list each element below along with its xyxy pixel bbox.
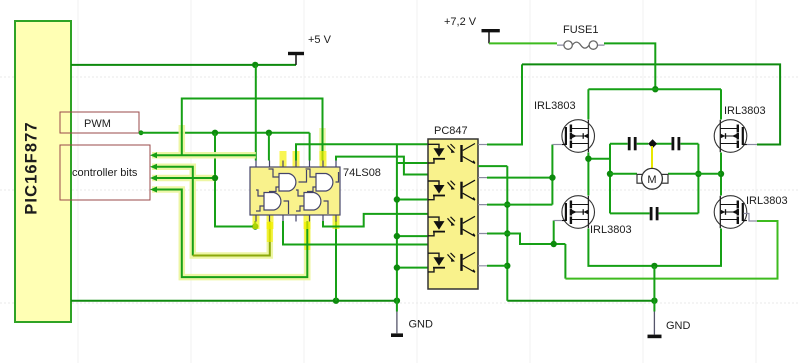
wire +5V rail from PIC [71, 64, 296, 66]
wire bottom cap row [610, 212, 698, 214]
AND gate 3 [256, 190, 289, 214]
motor M1 [637, 168, 668, 189]
wire cathode bus [396, 144, 398, 300]
wire opto ch1 collector to top rail [478, 144, 487, 146]
svg-text:74LS08: 74LS08 [343, 167, 381, 179]
wire source tie Q3-Q4 (inner U) [588, 229, 721, 266]
junction [585, 156, 591, 162]
gate lead Q4 [744, 214, 758, 222]
junction at IC pin bottom [252, 223, 258, 229]
svg-text:IRL3803: IRL3803 [590, 224, 632, 236]
junction node on +5V rail [252, 62, 258, 68]
pin highlights [280, 151, 287, 167]
wire Q1 gate column [507, 145, 552, 205]
highlight glow on controller bit nets [152, 125, 323, 277]
junction [651, 298, 657, 304]
power +7,2V [444, 16, 500, 43]
junction [394, 196, 400, 202]
AND gate 2 [306, 169, 339, 192]
gate lead Q3 [554, 220, 562, 222]
wire gate tie Q3-Q4 [565, 221, 777, 279]
wire cap column right [697, 144, 699, 214]
wire IC pin bottom to opto ch4 anode [283, 221, 428, 245]
wire opto ch1 emitter bus top [478, 165, 507, 167]
wire 7.2V to fuse [489, 42, 557, 44]
pins bottom [256, 215, 336, 222]
wire IC gate1 out to opto ch1 anode [296, 144, 428, 160]
junction [266, 130, 272, 136]
svg-text:PIC16F877: PIC16F877 [23, 121, 41, 214]
svg-text:IRL3803: IRL3803 [534, 100, 576, 112]
microcontroller PIC16F877 [15, 21, 71, 322]
wire opto stubs right [478, 205, 487, 266]
channel 3 [428, 216, 476, 236]
gate lead Q2 [747, 144, 757, 146]
wire bit1 to IC [157, 154, 256, 156]
MOSFET Q4 IRL3803 [714, 195, 787, 228]
controller bits box [60, 145, 150, 200]
wire to ground rail [653, 266, 655, 301]
svg-text:GND: GND [666, 320, 691, 332]
channel 4 [428, 252, 476, 272]
svg-text:+5 V: +5 V [308, 34, 332, 46]
MOSFET Q2 IRL3803 [714, 105, 765, 152]
arrow bit3 [150, 175, 157, 181]
AND gate 1 [269, 169, 307, 192]
wire IC pin bottom to opto ch3 anode [323, 214, 428, 227]
wire stub pin7 bottom [254, 221, 256, 227]
wire Q1 source jog [588, 153, 610, 196]
junction [504, 230, 510, 236]
capacitor C3 [651, 207, 657, 220]
svg-text:PC847: PC847 [434, 125, 468, 137]
wire top rail to Q2 gate [522, 64, 780, 144]
channel 1 [428, 144, 476, 164]
fuse FUSE1 [557, 24, 605, 49]
wire bit2 to IC (inner U) [157, 167, 193, 256]
wire PWM branch to IC top pin [268, 133, 270, 161]
wire PWM output [139, 130, 144, 135]
svg-text:IRL3803: IRL3803 [746, 195, 788, 207]
junction [394, 264, 400, 270]
junction [333, 298, 339, 304]
wire IC pin7 top to opto ch2 anode [336, 157, 428, 175]
junction [394, 298, 400, 304]
junction [551, 241, 557, 247]
wire motor row [610, 173, 721, 175]
wire bit4 to IC (outer U) [157, 190, 307, 278]
AND gate 4 [296, 190, 328, 214]
capacitor C1 [629, 137, 635, 150]
svg-text:M: M [647, 174, 656, 186]
junction [652, 86, 658, 92]
junction [695, 171, 701, 177]
junction [394, 233, 400, 239]
channel 2 [428, 180, 476, 200]
wire cap column left [609, 144, 611, 214]
wire opto ch2 collector to Q1 gate [478, 177, 487, 179]
junction [607, 171, 613, 177]
wire Q3 gate net [507, 221, 565, 279]
svg-text:FUSE1: FUSE1 [563, 24, 598, 36]
junction [504, 263, 510, 269]
wire Q2 source to Q4 drain [720, 153, 722, 196]
wire IC pin8 bottom to ground rail [335, 221, 337, 301]
svg-text:PWM: PWM [84, 118, 111, 130]
wire fuse to bridge [604, 43, 655, 89]
junction [651, 263, 657, 269]
gate lead Q1 [552, 144, 561, 146]
MOSFET Q3 IRL3803 [562, 196, 632, 236]
ground symbol right [648, 301, 691, 337]
svg-text:controller bits: controller bits [72, 167, 138, 179]
svg-text:+7,2 V: +7,2 V [444, 16, 477, 28]
wire highlighted motor feed [651, 146, 653, 169]
arrow bit2 [150, 164, 157, 170]
MOSFET Q1 IRL3803 [534, 100, 595, 152]
wire PWM branch to IC top pin [309, 133, 311, 161]
junction [212, 130, 218, 136]
wire bridge over boxes [182, 99, 323, 161]
junction [212, 175, 218, 181]
arrow bit4 [150, 187, 157, 193]
ground symbol left [391, 301, 433, 336]
capacitor C2 [673, 137, 679, 150]
wire emitter bus [506, 166, 508, 301]
svg-text:IRL3803: IRL3803 [724, 105, 766, 117]
PWM box [60, 112, 139, 133]
ground rail [71, 300, 654, 302]
wire top cap row [610, 143, 698, 145]
junction [718, 171, 724, 177]
junction [504, 201, 510, 207]
IC 74LS08 [250, 151, 381, 229]
wire PWM branch down under IC [215, 133, 255, 227]
svg-text:GND: GND [409, 319, 434, 331]
wire drain rail [588, 89, 721, 119]
junction [549, 174, 555, 180]
wire from +5V junction down to IC pin 1 top [255, 65, 257, 161]
node diamond [648, 139, 657, 148]
wire bit3 [157, 177, 215, 179]
wire bit2 inner U highlighted [193, 221, 270, 256]
optocoupler PC847 [428, 125, 478, 289]
power +5V [288, 34, 332, 65]
arrow bit1 [150, 152, 157, 158]
wire cathode stubs [397, 162, 428, 164]
pins top [256, 161, 336, 168]
